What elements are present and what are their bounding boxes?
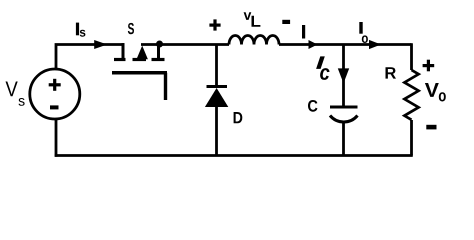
wire diode branch bottom <box>215 106 218 156</box>
label vL plus <box>209 19 220 30</box>
capacitor C <box>330 107 358 122</box>
wire capacitor branch bottom <box>342 121 345 156</box>
resistor R <box>404 70 418 120</box>
wire top-left segment (Vs to switch drain) <box>56 45 124 70</box>
diode D <box>205 87 228 108</box>
label Ic <box>316 56 329 80</box>
label R <box>386 67 397 78</box>
switch drain lead <box>122 43 125 59</box>
wire top-right segment (inductor to load corner) <box>279 43 412 46</box>
current arrow I <box>309 40 318 49</box>
wire capacitor branch top <box>342 45 345 107</box>
current arrow Is <box>94 40 107 49</box>
wire bottom rail <box>55 154 413 157</box>
wire top-middle segment (switch source to inductor) <box>141 43 229 46</box>
wire right branch top (to resistor) <box>410 43 413 70</box>
label VO minus <box>426 125 436 130</box>
label vL minus <box>282 20 290 24</box>
label vL <box>244 12 261 27</box>
inductor L <box>229 36 279 45</box>
label Io <box>359 22 368 43</box>
junction dot at switch source node <box>156 41 163 48</box>
voltage source VS <box>30 69 80 119</box>
wire diode branch top <box>215 45 218 88</box>
wire right branch bottom (resistor to rail) <box>410 120 413 156</box>
label VS <box>6 82 25 106</box>
current arrow Ic <box>338 68 349 83</box>
label S <box>128 23 134 34</box>
current arrow Io <box>369 40 381 49</box>
label D <box>234 112 243 123</box>
wire left-bottom segment (Vs to bottom rail) <box>55 119 58 157</box>
label I <box>302 25 305 39</box>
label C <box>308 100 318 112</box>
switch S (MOSFET) <box>112 45 167 101</box>
label VO plus <box>423 60 435 72</box>
label VO <box>425 83 446 102</box>
label Is <box>76 23 86 37</box>
